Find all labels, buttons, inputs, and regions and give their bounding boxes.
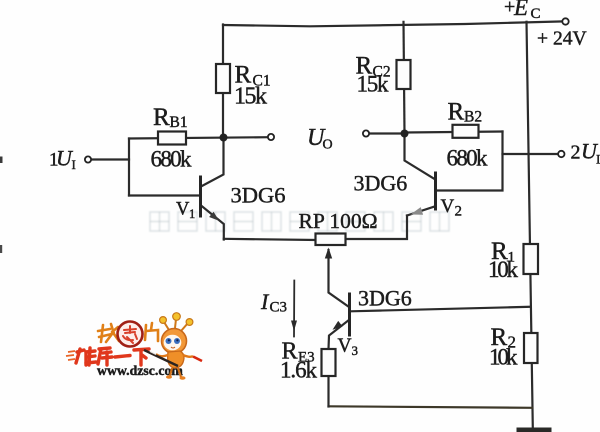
svg-text:2: 2 xyxy=(571,142,581,164)
svg-text:10k: 10k xyxy=(489,345,518,370)
svg-text:C: C xyxy=(531,6,541,22)
svg-text:I: I xyxy=(260,289,270,314)
svg-text:E: E xyxy=(513,0,528,20)
svg-text:3DG6: 3DG6 xyxy=(358,286,412,311)
svg-text:RP 100Ω: RP 100Ω xyxy=(299,209,378,233)
svg-text:V: V xyxy=(441,196,455,217)
svg-text:3DG6: 3DG6 xyxy=(354,171,408,196)
svg-text:1.6k: 1.6k xyxy=(280,358,318,383)
svg-text:R: R xyxy=(448,99,465,126)
svg-text:2: 2 xyxy=(455,204,463,220)
svg-text:I: I xyxy=(596,152,600,167)
svg-text:O: O xyxy=(323,138,333,153)
svg-text:+ 24V: + 24V xyxy=(537,29,587,50)
svg-text:3: 3 xyxy=(352,343,359,358)
svg-text:B1: B1 xyxy=(170,114,188,131)
svg-text:C3: C3 xyxy=(270,300,288,316)
svg-text:1: 1 xyxy=(189,207,195,221)
svg-text:15k: 15k xyxy=(357,72,390,97)
svg-text:R: R xyxy=(153,104,170,131)
svg-text:3DG6: 3DG6 xyxy=(231,183,286,208)
svg-text:V: V xyxy=(176,200,190,220)
svg-text:V: V xyxy=(338,336,352,357)
svg-text:15k: 15k xyxy=(234,84,267,110)
svg-text:10k: 10k xyxy=(488,257,519,282)
svg-text:B2: B2 xyxy=(464,109,482,126)
svg-text:680k: 680k xyxy=(151,147,193,172)
svg-text:680k: 680k xyxy=(447,146,489,171)
svg-text:I: I xyxy=(72,157,76,172)
